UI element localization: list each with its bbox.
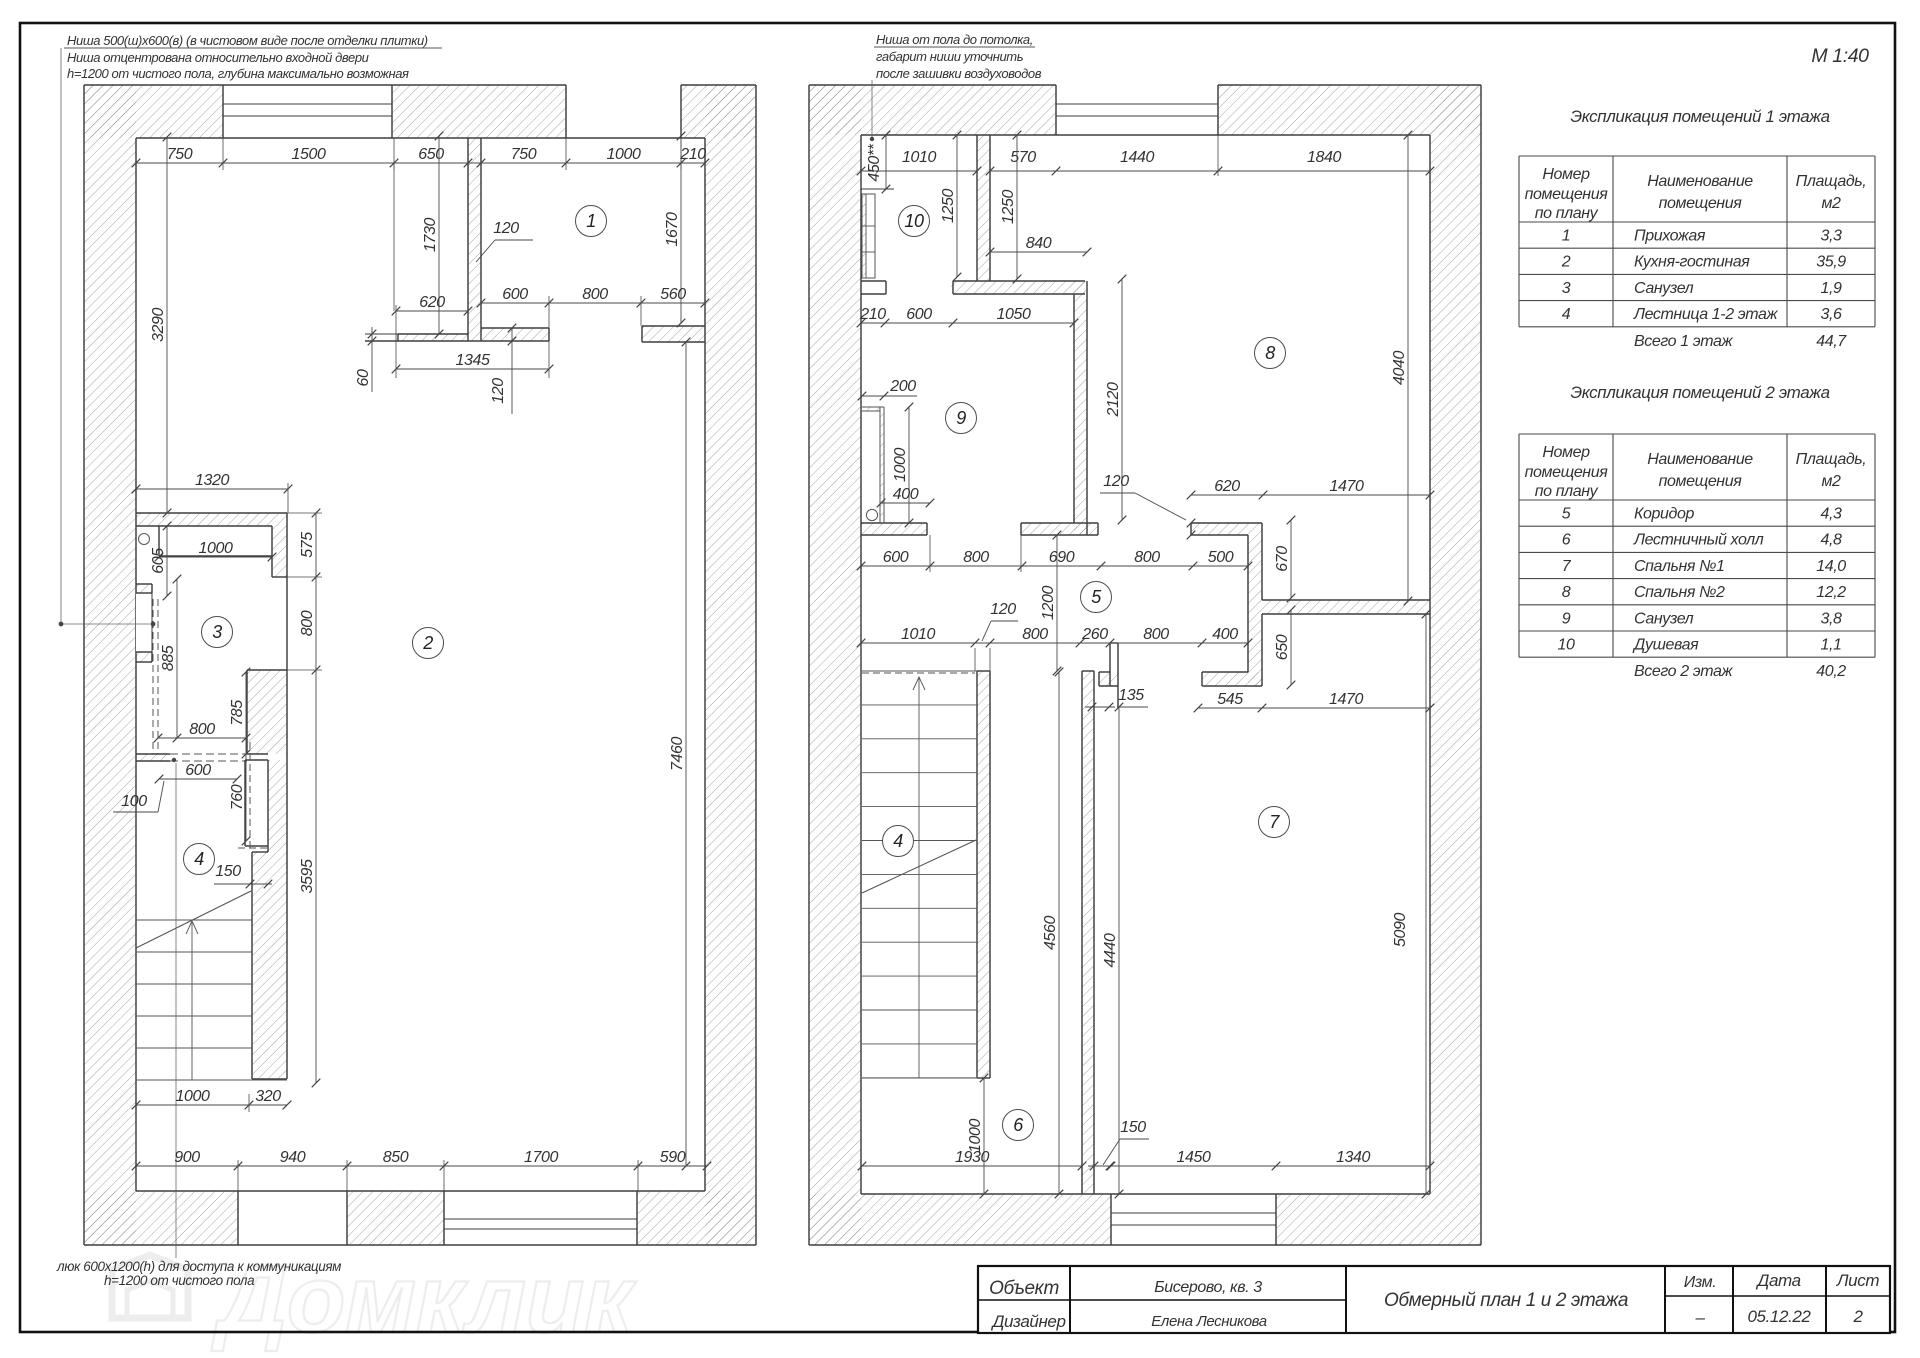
svg-text:800: 800 bbox=[299, 610, 316, 636]
dim 1670 bbox=[680, 136, 682, 323]
wall P outlines bbox=[1081, 671, 1083, 1194]
svg-text:9: 9 bbox=[1562, 610, 1571, 627]
svg-text:750: 750 bbox=[167, 146, 193, 163]
svg-text:Спальня №1: Спальня №1 bbox=[1634, 558, 1725, 575]
svg-text:800: 800 bbox=[1143, 626, 1169, 643]
left plan walls hatch bbox=[84, 85, 136, 1245]
svg-text:7: 7 bbox=[1269, 812, 1280, 832]
svg-text:545: 545 bbox=[1217, 691, 1243, 708]
svg-text:450**: 450** bbox=[866, 143, 883, 181]
svg-text:3: 3 bbox=[212, 622, 222, 642]
watermark domklik bbox=[112, 1246, 637, 1353]
svg-text:Номер: Номер bbox=[1542, 444, 1590, 461]
svg-text:h=1200 от чистого пола, глубин: h=1200 от чистого пола, глубина максимал… bbox=[67, 66, 409, 81]
svg-text:605: 605 bbox=[150, 548, 167, 574]
svg-text:Ниша отцентрована относительно: Ниша отцентрована относительно входной д… bbox=[67, 50, 369, 65]
svg-text:люк 600х1200(h) для доступа к: люк 600х1200(h) для доступа к коммуникац… bbox=[56, 1259, 341, 1274]
svg-text:1340: 1340 bbox=[1336, 1149, 1370, 1166]
entry door jambs bbox=[565, 85, 567, 138]
svg-text:4: 4 bbox=[1562, 306, 1571, 323]
dim 3290 bbox=[166, 137, 168, 513]
svg-text:690: 690 bbox=[1049, 549, 1075, 566]
L wall outlines bbox=[1247, 535, 1249, 672]
svg-text:3,6: 3,6 bbox=[1820, 306, 1842, 323]
title block frame bbox=[978, 1266, 1890, 1333]
room3 sink circle bbox=[139, 534, 150, 545]
svg-text:Дизайнер: Дизайнер bbox=[990, 1312, 1065, 1331]
svg-text:Наименование: Наименование bbox=[1647, 173, 1753, 190]
room3 left wall niche white bbox=[136, 593, 152, 652]
svg-text:помещения: помещения bbox=[1659, 473, 1743, 490]
bottom openings edges bbox=[237, 1191, 239, 1245]
svg-text:1000: 1000 bbox=[892, 448, 909, 482]
svg-text:1345: 1345 bbox=[456, 352, 490, 369]
svg-text:620: 620 bbox=[1214, 478, 1240, 495]
svg-text:по плану: по плану bbox=[1535, 483, 1599, 500]
svg-text:760: 760 bbox=[229, 784, 246, 810]
svg-text:1010: 1010 bbox=[902, 149, 936, 166]
dim 60 bbox=[371, 327, 373, 392]
svg-text:Душевая: Душевая bbox=[1632, 637, 1699, 654]
svg-text:940: 940 bbox=[280, 1149, 306, 1166]
svg-text:1670: 1670 bbox=[664, 212, 681, 246]
svg-text:10: 10 bbox=[904, 211, 924, 231]
dim 1000 room3 bbox=[159, 556, 272, 558]
svg-text:1440: 1440 bbox=[1120, 149, 1154, 166]
dim chain top 750 1500 650 750 1000 210 bbox=[136, 162, 705, 164]
svg-text:150: 150 bbox=[1120, 1119, 1146, 1136]
dim chain top right 1010 570 1440 1840 bbox=[861, 170, 977, 172]
svg-text:100: 100 bbox=[121, 793, 147, 810]
band room10 outlines bbox=[953, 280, 1085, 282]
vent dashed lines bbox=[249, 742, 251, 850]
dim 620 bbox=[396, 310, 468, 312]
svg-text:150: 150 bbox=[215, 863, 241, 880]
landing edge room6 bbox=[862, 1077, 977, 1079]
band A outlines bbox=[1021, 522, 1098, 524]
svg-text:3,3: 3,3 bbox=[1820, 228, 1842, 245]
svg-text:м2: м2 bbox=[1821, 473, 1841, 490]
stairs room6 cut line bbox=[862, 840, 976, 893]
dim 135 callout bbox=[1088, 703, 1097, 712]
svg-text:135: 135 bbox=[1118, 687, 1144, 704]
svg-text:1700: 1700 bbox=[524, 1149, 558, 1166]
svg-text:Коридор: Коридор bbox=[1634, 506, 1694, 523]
svg-text:Экспликация помещений 1 этажа: Экспликация помещений 1 этажа bbox=[1570, 107, 1829, 126]
room9 right wall outlines bbox=[1073, 294, 1075, 523]
dim 1345 bbox=[396, 368, 549, 370]
dim chain 1010 800 260 800 400 bbox=[861, 642, 1248, 644]
svg-text:1200: 1200 bbox=[1040, 586, 1057, 620]
svg-text:1470: 1470 bbox=[1329, 691, 1363, 708]
svg-text:60: 60 bbox=[355, 369, 372, 386]
svg-text:Ниша 500(ш)х600(в) (в чистовом: Ниша 500(ш)х600(в) (в чистовом виде посл… bbox=[67, 33, 428, 48]
svg-text:Экспликация помещений 2 этажа: Экспликация помещений 2 этажа bbox=[1570, 383, 1829, 402]
svg-text:12,2: 12,2 bbox=[1816, 584, 1846, 601]
dim 605 bbox=[166, 526, 168, 596]
svg-text:10: 10 bbox=[1558, 637, 1575, 654]
dim 650 bbox=[1290, 610, 1292, 685]
svg-text:–: – bbox=[1694, 1308, 1705, 1327]
svg-text:400: 400 bbox=[1212, 626, 1238, 643]
right plan walls hatch bbox=[809, 85, 861, 1245]
svg-text:1250: 1250 bbox=[1000, 190, 1017, 224]
svg-text:помещения: помещения bbox=[1525, 186, 1609, 203]
svg-text:44,7: 44,7 bbox=[1816, 333, 1847, 350]
table grid bbox=[1519, 155, 1875, 157]
svg-text:Лестничный холл: Лестничный холл bbox=[1633, 532, 1764, 549]
dim chain 210 600 1050 bbox=[861, 322, 1074, 324]
svg-text:6: 6 bbox=[1562, 532, 1571, 549]
band C outlines bbox=[1202, 671, 1248, 673]
room3 walls outlines bbox=[136, 512, 287, 514]
svg-text:800: 800 bbox=[963, 549, 989, 566]
dim 600 lower bbox=[159, 778, 237, 780]
wall block 785 outlines bbox=[247, 669, 287, 671]
leader niche right plan bbox=[871, 80, 873, 139]
stub Q outlines bbox=[1109, 643, 1111, 686]
partition room10 outlines bbox=[976, 135, 978, 281]
svg-text:3595: 3595 bbox=[299, 859, 316, 893]
dims 575 800 3595 bbox=[315, 513, 317, 1083]
table grid bbox=[1519, 433, 1875, 435]
svg-text:Ниша от пола до потолка,: Ниша от пола до потолка, bbox=[876, 32, 1033, 47]
dim chain 545 1470 bbox=[1198, 707, 1430, 709]
dim chain 620 1470 bbox=[1191, 494, 1430, 496]
svg-text:600: 600 bbox=[185, 762, 211, 779]
svg-text:785: 785 bbox=[229, 700, 246, 726]
svg-text:1,9: 1,9 bbox=[1820, 280, 1842, 297]
svg-text:Обмерный план 1 и 2 этажа: Обмерный план 1 и 2 этажа bbox=[1384, 1290, 1628, 1311]
svg-text:500: 500 bbox=[1208, 549, 1234, 566]
svg-text:помещения: помещения bbox=[1659, 195, 1743, 212]
dim 1000 room6 bbox=[983, 1078, 985, 1194]
dim 4040 bbox=[1407, 135, 1409, 601]
svg-text:4440: 4440 bbox=[1102, 933, 1119, 967]
room1 bottom walls outlines bbox=[398, 333, 468, 335]
svg-text:Санузел: Санузел bbox=[1634, 280, 1694, 297]
svg-text:1250: 1250 bbox=[940, 189, 957, 223]
room3 dashed niche lines bbox=[152, 599, 154, 754]
dim 1000 room9 bbox=[908, 407, 910, 523]
svg-text:210: 210 bbox=[679, 146, 706, 163]
leader top left note bbox=[60, 48, 62, 624]
svg-text:5090: 5090 bbox=[1392, 913, 1409, 947]
svg-text:Номер: Номер bbox=[1542, 166, 1590, 183]
dim 840 bbox=[990, 251, 1087, 253]
stair wall outlines bbox=[251, 852, 253, 1079]
svg-text:560: 560 bbox=[660, 286, 686, 303]
svg-text:Объект: Объект bbox=[989, 1278, 1059, 1299]
dim 450** bbox=[885, 135, 887, 189]
svg-text:Плащадь,: Плащадь, bbox=[1796, 173, 1867, 190]
svg-text:2: 2 bbox=[1561, 254, 1571, 271]
svg-text:по плану: по плану bbox=[1535, 205, 1599, 222]
svg-text:570: 570 bbox=[1010, 149, 1036, 166]
svg-text:200: 200 bbox=[889, 378, 916, 395]
dim chain 600 800 690 800 500 bbox=[861, 565, 1248, 567]
dim 760 bbox=[245, 754, 247, 841]
dims 1000 320 bbox=[136, 1104, 287, 1106]
svg-text:Санузел: Санузел bbox=[1634, 610, 1694, 627]
svg-text:2: 2 bbox=[422, 633, 433, 653]
svg-text:9: 9 bbox=[956, 408, 966, 428]
svg-text:4,3: 4,3 bbox=[1820, 506, 1842, 523]
stairs room6 divider and arrow bbox=[918, 677, 920, 1078]
svg-text:Бисерово, кв. 3: Бисерово, кв. 3 bbox=[1154, 1279, 1262, 1296]
svg-text:Лестница 1-2 этаж: Лестница 1-2 этаж bbox=[1633, 306, 1778, 323]
svg-text:750: 750 bbox=[511, 146, 537, 163]
room9 bottom wall outlines bbox=[861, 522, 927, 524]
svg-text:2: 2 bbox=[1852, 1307, 1863, 1326]
dim 150 callout room6 bbox=[1090, 1162, 1099, 1171]
svg-text:1470: 1470 bbox=[1330, 478, 1364, 495]
svg-text:850: 850 bbox=[383, 1149, 409, 1166]
svg-text:885: 885 bbox=[160, 645, 177, 671]
svg-text:1320: 1320 bbox=[195, 472, 229, 489]
svg-text:Спальня №2: Спальня №2 bbox=[1634, 584, 1725, 601]
svg-text:120: 120 bbox=[493, 220, 519, 237]
svg-text:6: 6 bbox=[1013, 1115, 1024, 1135]
svg-text:590: 590 bbox=[660, 1149, 686, 1166]
window bottom right plan bbox=[1110, 1194, 1112, 1245]
svg-text:h=1200 от чистого пола: h=1200 от чистого пола bbox=[104, 1273, 255, 1288]
dim 200 callout bbox=[862, 395, 917, 397]
svg-text:Всего 1 этаж: Всего 1 этаж bbox=[1634, 333, 1733, 350]
svg-text:1050: 1050 bbox=[997, 306, 1031, 323]
dims 1450 1340 bbox=[1111, 1165, 1430, 1167]
svg-text:1500: 1500 bbox=[292, 146, 326, 163]
svg-text:8: 8 bbox=[1562, 584, 1571, 601]
svg-text:1000: 1000 bbox=[967, 1119, 984, 1153]
svg-text:2120: 2120 bbox=[1105, 382, 1122, 417]
stairs room4 cut line bbox=[136, 891, 251, 948]
dim 1200 bbox=[1056, 535, 1058, 671]
svg-text:4: 4 bbox=[194, 849, 204, 869]
vent niche rect bbox=[245, 759, 268, 761]
dim chain bottom 900 940 850 1700 590 bbox=[136, 1165, 707, 1167]
svg-text:600: 600 bbox=[883, 549, 909, 566]
svg-text:Лист: Лист bbox=[1836, 1271, 1879, 1290]
svg-text:1010: 1010 bbox=[901, 626, 935, 643]
svg-text:Наименование: Наименование bbox=[1647, 451, 1753, 468]
dim 120 band bbox=[511, 328, 513, 414]
stairs room6 treads bbox=[862, 670, 977, 672]
room3 left blocks outlines bbox=[136, 583, 152, 585]
svg-text:840: 840 bbox=[1026, 235, 1052, 252]
svg-text:1450: 1450 bbox=[1177, 1149, 1211, 1166]
left plan wall outlines bbox=[84, 84, 566, 86]
svg-text:800: 800 bbox=[189, 721, 215, 738]
svg-text:1: 1 bbox=[586, 211, 596, 231]
svg-text:после зашивки воздуховодов: после зашивки воздуховодов bbox=[876, 66, 1042, 81]
svg-text:320: 320 bbox=[255, 1088, 281, 1105]
room9 fixtures bbox=[880, 407, 884, 523]
dim 5090 bbox=[1425, 614, 1427, 1194]
partition outlines bbox=[467, 138, 469, 341]
dim 1730 bbox=[438, 136, 440, 334]
svg-text:Елена Лесникова: Елена Лесникова bbox=[1151, 1313, 1266, 1330]
right plan wall outlines bbox=[809, 84, 1056, 86]
svg-text:14,0: 14,0 bbox=[1816, 558, 1846, 575]
room3 niche bbox=[158, 526, 160, 556]
dim 2120 bbox=[1121, 279, 1123, 520]
room circles left plan bbox=[576, 206, 607, 237]
svg-text:5: 5 bbox=[1562, 506, 1571, 523]
svg-text:05.12.22: 05.12.22 bbox=[1748, 1307, 1812, 1326]
dim 670 bbox=[1290, 520, 1292, 598]
svg-text:1: 1 bbox=[1562, 228, 1571, 245]
window W1 top bbox=[223, 103, 392, 105]
dim 800 room3 bbox=[158, 737, 246, 739]
dim 150 stairs bbox=[214, 883, 272, 885]
room3 door dashed bbox=[158, 753, 247, 755]
svg-text:4040: 4040 bbox=[1391, 351, 1408, 385]
dim 7460 bbox=[685, 342, 687, 1166]
stairs room6 dashed edge bbox=[862, 672, 975, 674]
svg-text:650: 650 bbox=[418, 146, 444, 163]
svg-text:620: 620 bbox=[419, 294, 445, 311]
svg-text:1840: 1840 bbox=[1307, 149, 1341, 166]
svg-text:1000: 1000 bbox=[607, 146, 641, 163]
svg-text:575: 575 bbox=[299, 532, 316, 558]
svg-text:1730: 1730 bbox=[422, 218, 439, 252]
svg-text:Изм.: Изм. bbox=[1684, 1274, 1717, 1291]
dim chain 600 800 560 bbox=[481, 302, 705, 304]
svg-text:3,8: 3,8 bbox=[1820, 610, 1842, 627]
svg-text:260: 260 bbox=[1081, 626, 1108, 643]
svg-text:3: 3 bbox=[1562, 280, 1571, 297]
svg-text:120: 120 bbox=[1103, 473, 1129, 490]
band B outlines bbox=[1262, 599, 1430, 601]
stairs room4 treads bbox=[136, 919, 252, 921]
window W2 bottom bbox=[444, 1218, 637, 1220]
svg-text:800: 800 bbox=[1134, 549, 1160, 566]
svg-text:600: 600 bbox=[906, 306, 932, 323]
stairs room4 up arrow bbox=[191, 922, 193, 1080]
svg-text:900: 900 bbox=[174, 1149, 200, 1166]
dim 885 bbox=[176, 579, 178, 738]
svg-text:Плащадь,: Плащадь, bbox=[1796, 451, 1867, 468]
svg-text:4560: 4560 bbox=[1042, 916, 1059, 950]
svg-text:Кухня-гостиная: Кухня-гостиная bbox=[1634, 254, 1750, 271]
svg-text:7460: 7460 bbox=[669, 737, 686, 771]
svg-text:Дата: Дата bbox=[1755, 1271, 1800, 1290]
svg-text:800: 800 bbox=[1022, 626, 1048, 643]
svg-text:210: 210 bbox=[859, 306, 886, 323]
svg-text:М 1:40: М 1:40 bbox=[1811, 45, 1869, 67]
svg-text:400: 400 bbox=[893, 486, 919, 503]
svg-text:800: 800 bbox=[582, 286, 608, 303]
room circles right plan bbox=[883, 826, 914, 857]
svg-text:1000: 1000 bbox=[176, 1088, 210, 1105]
svg-text:1000: 1000 bbox=[199, 540, 233, 557]
stair wall 6 outlines bbox=[976, 671, 978, 1078]
svg-text:3290: 3290 bbox=[150, 308, 167, 342]
svg-text:120: 120 bbox=[990, 601, 1016, 618]
svg-text:4: 4 bbox=[893, 831, 903, 851]
dim 400 room9 bbox=[881, 502, 930, 504]
svg-text:670: 670 bbox=[1274, 546, 1291, 572]
svg-text:помещения: помещения bbox=[1525, 464, 1609, 481]
dim 1320 bbox=[136, 488, 288, 490]
svg-text:м2: м2 bbox=[1821, 195, 1841, 212]
svg-text:5: 5 bbox=[1091, 587, 1102, 607]
svg-text:120: 120 bbox=[490, 378, 507, 404]
svg-text:650: 650 bbox=[1274, 634, 1291, 660]
svg-text:600: 600 bbox=[502, 286, 528, 303]
window top right plan bbox=[1055, 85, 1057, 135]
svg-text:4,8: 4,8 bbox=[1820, 532, 1842, 549]
svg-text:габарит ниши уточнить: габарит ниши уточнить bbox=[876, 49, 1024, 64]
svg-text:Всего 2 этаж: Всего 2 этаж bbox=[1634, 663, 1733, 680]
svg-text:Прихожая: Прихожая bbox=[1634, 228, 1706, 245]
svg-text:35,9: 35,9 bbox=[1816, 254, 1846, 271]
dims 1250 1250 bbox=[956, 135, 958, 277]
room10 fixtures bbox=[861, 188, 894, 190]
svg-text:8: 8 bbox=[1265, 343, 1275, 363]
luk leader line bbox=[175, 763, 177, 1258]
dim 4440 bbox=[1118, 707, 1120, 1194]
dim 785 bbox=[245, 672, 247, 754]
svg-text:40,2: 40,2 bbox=[1816, 663, 1846, 680]
dim 4560 bbox=[1058, 672, 1060, 1194]
svg-text:1,1: 1,1 bbox=[1820, 637, 1841, 654]
dim 1930 bbox=[862, 1165, 1082, 1167]
